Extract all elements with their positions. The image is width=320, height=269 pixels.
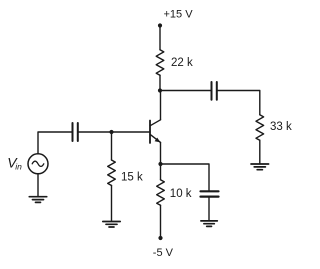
label 15 k bbox=[121, 172, 143, 184]
wire R 15k to ground bbox=[111, 186, 113, 222]
label 33 k bbox=[270, 121, 292, 133]
label 22 k bbox=[171, 57, 193, 69]
ground below R 33k bbox=[251, 164, 269, 170]
wire C2 to ground bbox=[208, 198, 210, 221]
svg-text:+15 V: +15 V bbox=[164, 8, 194, 20]
node collector dot bbox=[158, 88, 162, 92]
wire source to input cap corner bbox=[38, 132, 72, 154]
wire emitter node to R 10k bbox=[160, 164, 162, 180]
transistor Q1 emitter arrowhead bbox=[155, 138, 161, 143]
wire base node to R 15k bbox=[111, 132, 113, 160]
wire base lead bbox=[112, 131, 151, 133]
capacitor C1 right plate bbox=[77, 123, 79, 141]
wire R 10k to -5V terminal bbox=[160, 205, 162, 238]
capacitor C2 top plate bbox=[201, 190, 219, 192]
wire C1 to base node bbox=[78, 131, 112, 133]
wire collector node down bbox=[160, 91, 162, 120]
label Vin bbox=[7, 155, 22, 172]
wire +15V to R 22k bbox=[159, 26, 161, 50]
svg-text:-5 V: -5 V bbox=[153, 247, 174, 259]
node emitter dot bbox=[158, 162, 162, 166]
svg-text:in: in bbox=[15, 162, 22, 172]
wire emitter node to bypass cap bbox=[161, 164, 210, 190]
svg-text:22 k: 22 k bbox=[171, 57, 193, 69]
capacitor C3 left plate bbox=[211, 82, 213, 100]
capacitor C2 bottom plate bbox=[201, 196, 219, 198]
svg-text:15 k: 15 k bbox=[121, 172, 143, 184]
transistor Q1 base bar bbox=[149, 121, 151, 144]
ground below Vin source bbox=[29, 197, 46, 203]
transistor Q1 emitter diagonal bbox=[150, 134, 161, 142]
ground below C2 bbox=[201, 221, 217, 227]
wire R 22k to collector node bbox=[159, 75, 161, 90]
power -5 V label bbox=[153, 247, 174, 259]
svg-text:33 k: 33 k bbox=[270, 121, 292, 133]
transistor Q1 collector diagonal bbox=[150, 120, 161, 126]
capacitor C3 right plate bbox=[216, 82, 218, 100]
source Vin circle bbox=[28, 154, 48, 174]
source Vin sine wave bbox=[32, 161, 44, 166]
node base dot bbox=[109, 130, 113, 134]
svg-text:10 k: 10 k bbox=[170, 188, 192, 200]
wire R 33k to ground bbox=[259, 140, 261, 164]
ground below R 15k bbox=[103, 222, 120, 228]
node terminal -5V dot bbox=[158, 236, 162, 240]
resistor R 15k bbox=[108, 160, 116, 186]
label 10 k bbox=[170, 188, 192, 200]
power +15 V label bbox=[164, 8, 194, 20]
resistor R 22k bbox=[156, 50, 164, 76]
wire collector node to C3 bbox=[160, 90, 211, 92]
resistor R 33k bbox=[256, 115, 264, 141]
resistor R 10k bbox=[157, 180, 165, 206]
wire emitter down to node bbox=[160, 142, 162, 164]
wire C3 to R 33k corner bbox=[217, 91, 260, 115]
wire source to ground bbox=[37, 174, 39, 197]
capacitor C1 left plate bbox=[72, 123, 74, 141]
node terminal +15V dot bbox=[158, 23, 162, 27]
